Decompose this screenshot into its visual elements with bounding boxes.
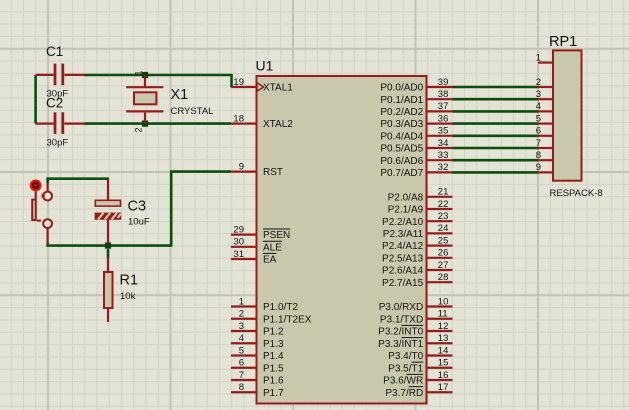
RP1 pin 7	[536, 138, 553, 149]
svg-text:8: 8	[536, 150, 541, 161]
wire	[84, 122, 231, 125]
microcontroller U1 body	[256, 58, 427, 404]
svg-text:P1.3: P1.3	[263, 339, 284, 350]
svg-text:X1: X1	[171, 87, 189, 103]
U1 pin 17 (P3.7/RD)	[385, 382, 452, 399]
svg-text:25: 25	[438, 235, 449, 246]
svg-text:P3.6/WR: P3.6/WR	[383, 376, 423, 387]
U1 pin 16 (P3.6/WR)	[383, 370, 452, 387]
svg-text:15: 15	[438, 358, 449, 369]
svg-text:24: 24	[438, 223, 449, 234]
U1 pin 26 (P2.5/A13)	[382, 248, 452, 265]
svg-text:22: 22	[438, 199, 449, 210]
svg-text:P3.0/RXD: P3.0/RXD	[379, 302, 423, 313]
svg-text:28: 28	[438, 272, 449, 283]
svg-text:P0.7/AD7: P0.7/AD7	[380, 168, 423, 179]
svg-text:P3.2/INT0: P3.2/INT0	[378, 327, 423, 338]
svg-text:PSEN: PSEN	[263, 230, 290, 241]
svg-text:P0.0/AD0: P0.0/AD0	[380, 83, 423, 94]
svg-text:P0.1/AD1: P0.1/AD1	[380, 95, 423, 106]
svg-text:P1.5: P1.5	[263, 363, 284, 374]
svg-text:30pF: 30pF	[47, 138, 69, 149]
push button actuator marker	[30, 180, 42, 192]
junction	[142, 121, 148, 127]
resistor pack RP1 body	[549, 34, 603, 199]
svg-text:ALE: ALE	[263, 242, 282, 253]
svg-text:EA: EA	[263, 255, 277, 266]
wire	[84, 74, 232, 77]
U1 pin 5 (P1.4)	[231, 345, 284, 362]
svg-text:5: 5	[239, 345, 244, 356]
svg-text:C2: C2	[46, 96, 63, 111]
svg-text:8: 8	[239, 382, 244, 393]
U1 pin 31 (EA)	[231, 249, 277, 266]
svg-text:P0.6/AD6: P0.6/AD6	[380, 156, 423, 167]
crystal X1	[126, 71, 213, 133]
wire	[453, 147, 539, 150]
wire	[48, 243, 172, 246]
U1 pin 35 (P0.4/AD4)	[380, 126, 452, 143]
svg-text:P0.3/AD3: P0.3/AD3	[380, 119, 423, 130]
svg-text:14: 14	[438, 345, 449, 356]
svg-text:7: 7	[536, 138, 541, 149]
svg-text:P3.1/TXD: P3.1/TXD	[380, 314, 423, 325]
svg-text:P1.6: P1.6	[263, 376, 284, 387]
svg-text:36: 36	[438, 113, 449, 124]
capacitor C2	[36, 96, 85, 149]
svg-text:U1: U1	[256, 58, 274, 74]
wire	[453, 86, 539, 89]
svg-text:RESPACK-8: RESPACK-8	[550, 188, 603, 199]
svg-text:6: 6	[536, 126, 541, 137]
wire	[48, 179, 109, 183]
svg-text:RST: RST	[263, 167, 283, 178]
svg-text:35: 35	[438, 126, 449, 137]
U1 pin 22 (P2.1/A9)	[388, 199, 453, 216]
svg-text:29: 29	[233, 224, 244, 235]
U1 pin 2 (P1.1/T2EX)	[231, 309, 312, 326]
svg-text:RP1: RP1	[549, 34, 577, 50]
push button	[32, 183, 52, 244]
svg-text:P1.7: P1.7	[263, 388, 284, 399]
svg-text:10uF: 10uF	[128, 217, 150, 228]
svg-text:P3.3/INT1: P3.3/INT1	[378, 339, 423, 350]
U1 pin 38 (P0.1/AD1)	[380, 89, 452, 106]
U1 pin 12 (P3.2/INT0)	[378, 321, 452, 338]
U1 pin 33 (P0.6/AD6)	[380, 150, 452, 167]
U1 pin 15 (P3.5/T1)	[388, 358, 452, 375]
svg-text:38: 38	[438, 89, 449, 100]
RP1 pin 1	[536, 52, 553, 63]
svg-text:4: 4	[536, 101, 541, 112]
svg-text:2: 2	[134, 128, 144, 133]
svg-text:3: 3	[536, 89, 541, 100]
U1 pin 21 (P2.0/A8)	[388, 187, 453, 204]
svg-text:1: 1	[134, 71, 144, 76]
capacitor C3	[95, 180, 150, 244]
svg-text:34: 34	[438, 138, 449, 149]
U1 pin 36 (P0.3/AD3)	[380, 113, 452, 130]
svg-text:R1: R1	[120, 273, 139, 289]
svg-text:P3.7/RD: P3.7/RD	[385, 388, 423, 399]
wire	[453, 98, 539, 101]
wire	[34, 75, 37, 124]
svg-text:P2.3/A11: P2.3/A11	[383, 229, 424, 240]
U1 pin 19 (XTAL1)	[231, 77, 293, 94]
wire	[453, 122, 539, 125]
svg-text:P1.0/T2: P1.0/T2	[263, 302, 298, 313]
svg-text:21: 21	[438, 187, 449, 198]
U1 pin 7 (P1.6)	[231, 370, 284, 387]
wire	[453, 135, 539, 138]
svg-text:XTAL2: XTAL2	[263, 119, 293, 130]
svg-text:P2.7/A15: P2.7/A15	[382, 278, 424, 289]
U1 pin 18 (XTAL2)	[231, 113, 293, 130]
svg-text:P1.2: P1.2	[263, 327, 284, 338]
svg-text:33: 33	[438, 150, 449, 161]
RP1 pin 3	[536, 89, 553, 100]
U1 pin 24 (P2.3/A11)	[383, 223, 453, 240]
svg-text:12: 12	[438, 321, 449, 332]
svg-text:P0.4/AD4: P0.4/AD4	[380, 131, 423, 142]
junction	[105, 243, 111, 249]
wire	[453, 159, 539, 162]
svg-text:19: 19	[233, 77, 244, 88]
svg-text:P2.4/A12: P2.4/A12	[382, 241, 424, 252]
U1 pin 30 (ALE)	[231, 237, 282, 254]
svg-text:39: 39	[438, 77, 449, 88]
U1 pin 1 (P1.0/T2)	[231, 296, 298, 313]
U1 pin 32 (P0.7/AD7)	[380, 162, 452, 179]
svg-text:P2.2/A10: P2.2/A10	[382, 217, 424, 228]
svg-text:4: 4	[239, 333, 244, 344]
svg-text:2: 2	[536, 77, 541, 88]
RP1 pin 9	[536, 162, 553, 173]
svg-text:5: 5	[536, 113, 541, 124]
svg-text:P1.1/T2EX: P1.1/T2EX	[263, 314, 312, 325]
U1 pin 13 (P3.3/INT1)	[378, 333, 452, 350]
U1 pin 37 (P0.2/AD2)	[380, 101, 452, 118]
svg-text:1: 1	[239, 296, 244, 307]
svg-text:XTAL1: XTAL1	[263, 83, 293, 94]
svg-text:P3.5/T1: P3.5/T1	[388, 363, 423, 374]
U1 pin 28 (P2.7/A15)	[382, 272, 452, 289]
svg-text:P2.6/A14: P2.6/A14	[382, 266, 424, 277]
RP1 pin 6	[536, 126, 553, 137]
junction	[142, 72, 148, 78]
U1 pin 4 (P1.3)	[231, 333, 284, 350]
U1 pin 23 (P2.2/A10)	[382, 211, 452, 228]
svg-text:17: 17	[438, 382, 449, 393]
svg-text:10k: 10k	[120, 291, 136, 302]
svg-text:P3.4/T0: P3.4/T0	[388, 351, 423, 362]
svg-text:9: 9	[239, 161, 244, 172]
svg-text:9: 9	[536, 162, 541, 173]
wire	[171, 172, 231, 247]
U1 pin 29 (PSEN)	[231, 224, 290, 241]
svg-text:23: 23	[438, 211, 449, 222]
wire	[107, 249, 110, 259]
U1 pin 39 (P0.0/AD0)	[380, 77, 452, 94]
svg-text:P1.4: P1.4	[263, 351, 284, 362]
svg-text:3: 3	[239, 321, 244, 332]
resistor R1	[104, 258, 138, 322]
U1 pin 34 (P0.5/AD5)	[380, 138, 452, 155]
U1 pin 27 (P2.6/A14)	[382, 260, 452, 277]
svg-text:30: 30	[233, 237, 244, 248]
U1 pin 25 (P2.4/A12)	[382, 235, 452, 252]
U1 pin 3 (P1.2)	[231, 321, 284, 338]
U1 pin 14 (P3.4/T0)	[388, 345, 452, 362]
svg-text:P0.2/AD2: P0.2/AD2	[380, 107, 423, 118]
U1 pin 8 (P1.7)	[231, 382, 284, 399]
svg-text:C1: C1	[46, 44, 63, 59]
svg-text:10: 10	[438, 296, 449, 307]
svg-text:18: 18	[233, 113, 244, 124]
svg-text:32: 32	[438, 162, 449, 173]
svg-text:P2.1/A9: P2.1/A9	[388, 205, 424, 216]
svg-text:7: 7	[239, 370, 244, 381]
capacitor C1	[36, 44, 85, 100]
U1 pin 10 (P3.0/RXD)	[379, 296, 453, 313]
RP1 pin 2	[536, 77, 553, 88]
svg-text:31: 31	[233, 249, 244, 260]
svg-text:37: 37	[438, 101, 449, 112]
svg-text:P2.5/A13: P2.5/A13	[382, 253, 424, 264]
svg-text:P2.0/A8: P2.0/A8	[388, 192, 424, 203]
RP1 pin 4	[536, 101, 553, 112]
U1 pin 9 (RST)	[231, 161, 283, 178]
wire	[230, 74, 233, 87]
svg-text:6: 6	[239, 358, 244, 369]
svg-text:27: 27	[438, 260, 449, 271]
U1 pin 6 (P1.5)	[231, 358, 284, 375]
wire	[453, 110, 539, 113]
svg-text:26: 26	[438, 248, 449, 259]
svg-text:13: 13	[438, 333, 449, 344]
RP1 pin 5	[536, 113, 553, 124]
svg-text:1: 1	[536, 52, 541, 63]
svg-text:CRYSTAL: CRYSTAL	[171, 106, 214, 117]
svg-text:P0.5/AD5: P0.5/AD5	[380, 144, 423, 155]
svg-text:16: 16	[438, 370, 449, 381]
svg-text:2: 2	[239, 309, 244, 320]
U1 pin 11 (P3.1/TXD)	[380, 309, 453, 326]
svg-text:C3: C3	[128, 199, 147, 215]
RP1 pin 8	[536, 150, 553, 161]
svg-text:11: 11	[438, 309, 448, 320]
wire	[453, 171, 539, 174]
